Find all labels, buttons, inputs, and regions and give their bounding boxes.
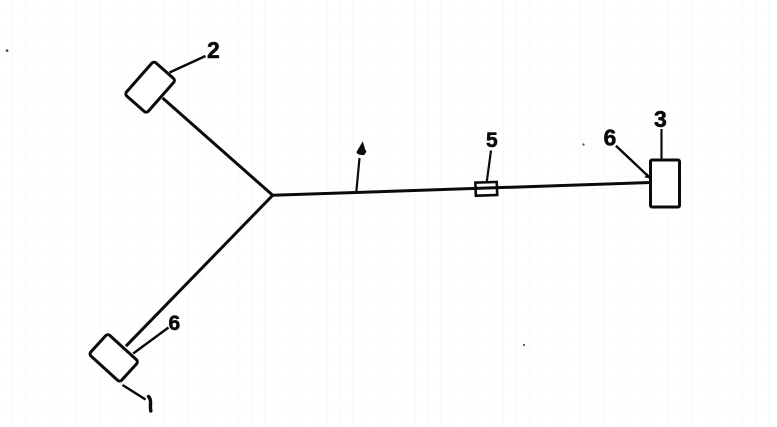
- leader line for numeral 6 (right) with arrowhead: [616, 146, 650, 179]
- svg-text:6: 6: [604, 125, 617, 151]
- main cable wire 4: [273, 183, 651, 196]
- svg-text:3: 3: [654, 106, 667, 132]
- leader line for numeral 6 (left): [133, 328, 168, 354]
- reference numeral 4: [356, 141, 366, 155]
- stray ink speck above wire: [582, 143, 584, 145]
- stray ink speck near center right: [523, 344, 525, 346]
- connector 1 box: [89, 334, 139, 383]
- svg-text:6: 6: [169, 312, 181, 335]
- wire branch to connector 2: [163, 98, 273, 195]
- connector 3 box: [651, 160, 680, 207]
- leader line for numeral 4: [356, 158, 359, 192]
- leader line for numeral 1: [123, 385, 146, 400]
- leader line for numeral 2: [170, 56, 206, 73]
- inline component item 5: [475, 182, 497, 196]
- reference numeral 1: [149, 397, 151, 412]
- stray ink speck left margin: [6, 49, 9, 52]
- connector 2 box: [125, 61, 176, 113]
- svg-text:5: 5: [486, 129, 498, 152]
- leader line for numeral 3: [660, 129, 662, 160]
- leader line for numeral 5: [487, 151, 491, 182]
- wire branch to connector 1: [126, 195, 273, 346]
- svg-text:2: 2: [207, 37, 220, 63]
